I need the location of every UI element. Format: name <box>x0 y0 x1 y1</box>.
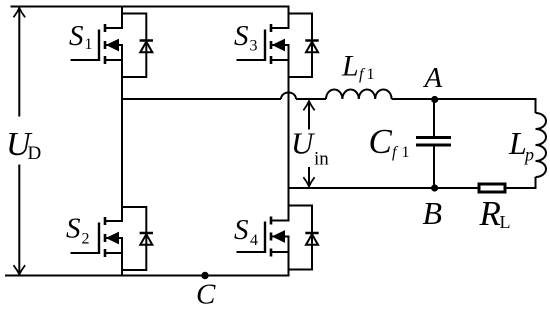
svg-text:1: 1 <box>367 66 375 83</box>
wire Lp bottom to resistor <box>507 187 537 189</box>
wire hop to inductor <box>296 98 326 100</box>
svg-text:p: p <box>523 145 534 165</box>
wire bottom rail <box>5 275 290 277</box>
svg-text:2: 2 <box>82 230 90 247</box>
label S2 <box>66 213 90 248</box>
node A <box>431 96 438 103</box>
voltage arrow Uin <box>303 101 314 187</box>
wire left leg S2 source <box>121 238 123 276</box>
wire upper output (left leg to hop) <box>122 98 281 100</box>
inductor Lp <box>536 113 547 177</box>
capacitor Cf1 top lead <box>433 99 435 136</box>
inductor Lf1 <box>326 90 392 100</box>
capacitor Cf1 bottom lead <box>433 147 435 189</box>
wire inductor to node A and right corner <box>392 98 537 100</box>
transistor S4 <box>237 217 290 257</box>
wire hop over right leg <box>281 93 296 99</box>
transistor S3 <box>237 24 290 64</box>
label S4 <box>234 214 258 249</box>
label Lp <box>508 125 534 165</box>
diode D1 (body diode of S1) <box>122 14 153 78</box>
svg-text:C: C <box>369 122 393 161</box>
svg-text:B: B <box>423 195 443 231</box>
svg-text:1: 1 <box>402 144 410 161</box>
wire resistor to node B <box>289 187 478 189</box>
label UD <box>6 126 41 164</box>
resistor RL <box>479 184 505 192</box>
diode D2 (body diode of S2) <box>122 207 153 270</box>
label Uin <box>291 125 329 169</box>
wire left leg S1 drain <box>121 7 123 29</box>
transistor S2 <box>71 217 124 257</box>
svg-text:A: A <box>423 62 443 94</box>
wire right column bottom <box>535 177 537 188</box>
svg-text:L: L <box>341 49 359 82</box>
diode D4 (body diode of S4) <box>289 206 319 270</box>
label S1 <box>69 20 93 53</box>
label RL <box>479 194 511 233</box>
diode D3 (body diode of S3) <box>289 14 319 78</box>
wire right column top <box>535 98 537 113</box>
svg-text:R: R <box>479 194 501 233</box>
svg-text:in: in <box>314 149 329 170</box>
svg-text:1: 1 <box>85 36 93 53</box>
label S3 <box>234 20 258 55</box>
label Lf1 <box>341 49 375 83</box>
svg-text:S: S <box>66 213 81 245</box>
voltage arrow UD <box>14 8 26 275</box>
wire top rail <box>11 6 290 8</box>
svg-text:L: L <box>500 212 511 232</box>
svg-text:U: U <box>291 125 316 160</box>
svg-text:L: L <box>508 125 527 161</box>
wire right leg S3 drain <box>288 7 290 29</box>
capacitor Cf1 plates <box>416 136 451 139</box>
svg-text:C: C <box>196 278 216 310</box>
wire left leg middle (S1 source to S2 drain) <box>121 45 123 222</box>
svg-text:3: 3 <box>250 38 258 55</box>
wire right leg middle (S3 source to S4 drain) <box>288 45 290 221</box>
svg-text:S: S <box>234 20 249 52</box>
transistor S1 <box>71 24 124 64</box>
node C <box>201 272 208 279</box>
svg-text:S: S <box>69 20 84 52</box>
wire right leg S4 source <box>288 237 290 276</box>
svg-text:4: 4 <box>250 232 258 249</box>
svg-text:S: S <box>234 214 249 246</box>
node B <box>431 184 438 191</box>
svg-text:D: D <box>28 143 42 164</box>
label Cf1 <box>369 122 410 161</box>
